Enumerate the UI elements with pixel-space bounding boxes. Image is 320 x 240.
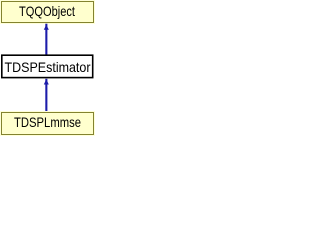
inheritance arrowhead (lower) xyxy=(44,79,49,84)
inheritance arrow stem (lower) xyxy=(45,79,47,112)
inheritance arrowhead (upper) xyxy=(44,25,49,30)
svg-text:TDSPLmmse: TDSPLmmse xyxy=(14,115,81,130)
svg-text:TQQObject: TQQObject xyxy=(19,4,75,19)
class box TQQObject xyxy=(0,0,95,24)
class box TDSPEstimator (current class) xyxy=(2,55,93,77)
background xyxy=(0,0,95,136)
svg-text:TDSPEstimator: TDSPEstimator xyxy=(5,60,91,75)
inheritance arrow stem (upper) xyxy=(45,24,47,56)
class box TDSPLmmse xyxy=(0,111,95,136)
